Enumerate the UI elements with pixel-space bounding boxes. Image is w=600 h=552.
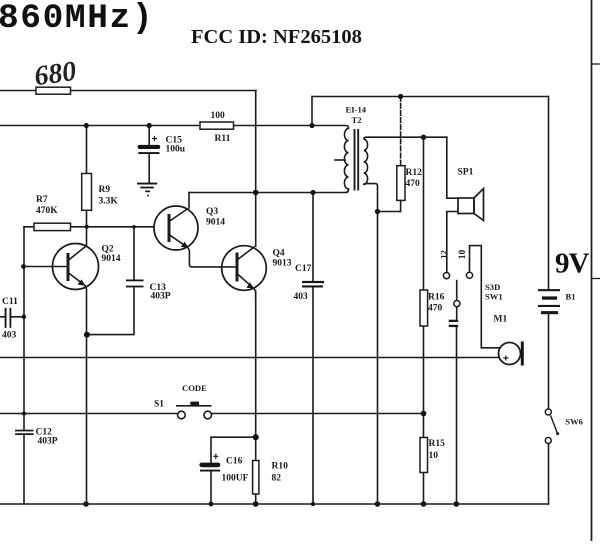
wire code line with S1 gap — [0, 413, 424, 415]
wire base line R7 to Q3 — [24, 226, 154, 228]
wire right page border — [591, 0, 593, 540]
capacitor C17 — [302, 281, 324, 288]
wire riser joining rail C to rail B — [311, 97, 313, 126]
svg-text:82: 82 — [272, 474, 282, 484]
wire long microphone wire — [0, 357, 499, 359]
wire C15 column — [148, 126, 150, 183]
wire Q4 collector riser — [255, 193, 257, 247]
capacitor C16 (electrolytic) — [199, 454, 220, 472]
svg-text:12: 12 — [438, 250, 448, 259]
capacitor C13 — [126, 280, 144, 288]
wire R16 R15 column — [423, 137, 425, 504]
svg-text:100: 100 — [211, 111, 226, 121]
transformer T2 primary coil — [344, 129, 348, 193]
junction C11 node — [22, 315, 26, 319]
capacitor C11 — [5, 308, 12, 328]
svg-text:470: 470 — [428, 303, 443, 313]
svg-text:9013: 9013 — [273, 259, 292, 269]
svg-text:R7: R7 — [36, 195, 48, 205]
svg-text:B1: B1 — [566, 292, 576, 302]
wire battery to SW6 — [548, 314, 550, 409]
svg-text:T2: T2 — [352, 115, 362, 125]
junction R12 top on supply rail — [398, 94, 403, 99]
svg-text:680: 680 — [32, 56, 78, 93]
junction ground rail R10 — [253, 501, 259, 507]
svg-text:R15: R15 — [429, 439, 446, 449]
junction secondary bottom with R12 — [375, 209, 380, 214]
junction riser on VCC rail — [309, 123, 314, 128]
battery B1 — [538, 289, 560, 314]
wire Q3 collector riser — [188, 193, 190, 209]
svg-text:FCC ID: NF265108: FCC ID: NF265108 — [191, 26, 362, 48]
svg-text:R16: R16 — [428, 293, 445, 303]
svg-text:10: 10 — [458, 250, 468, 260]
svg-text:9V: 9V — [555, 248, 590, 280]
wire left column through C12 — [23, 227, 25, 504]
resistor 680 (handwritten value) — [36, 87, 71, 94]
wire VCC rail B to transformer primary top — [0, 126, 349, 129]
svg-text:403: 403 — [2, 331, 17, 341]
wire C13 column top — [133, 227, 135, 280]
resistor R16 — [420, 290, 428, 326]
wire R12 column — [400, 97, 402, 166]
junction Q2 base node — [21, 264, 26, 269]
wire C11 leads — [0, 316, 24, 318]
wire battery column top — [548, 97, 550, 290]
wire speaker top lead — [447, 137, 458, 198]
transistor Q4 — [222, 246, 267, 300]
junction R9 top on VCC rail — [84, 123, 89, 128]
svg-text:Q2: Q2 — [102, 245, 114, 255]
junction C12 on code wire — [22, 412, 26, 416]
junction code wire at R15 top — [421, 411, 427, 417]
switch S3D SW1 slider bars — [449, 320, 458, 327]
transformer T2 core — [355, 129, 359, 191]
wire secondary bottom column to bottom rail — [377, 212, 379, 505]
wire top rail through 680 resistor — [0, 90, 256, 92]
svg-text:10: 10 — [429, 451, 439, 461]
svg-text:860MHz): 860MHz) — [0, 0, 154, 38]
svg-text:S1: S1 — [154, 400, 164, 410]
wire R12 bottom link — [378, 211, 401, 213]
junction Q4 collector node — [253, 190, 259, 196]
svg-text:470: 470 — [406, 179, 421, 189]
svg-text:SW6: SW6 — [565, 417, 583, 427]
wire speaker bottom lead to contact 12 — [447, 212, 458, 273]
resistor R10 — [253, 461, 259, 495]
svg-text:100u: 100u — [166, 145, 186, 155]
wire transformer secondary bottom drop — [367, 184, 378, 212]
junction ground rail switch pole — [454, 501, 460, 507]
wire C17 column — [312, 193, 314, 505]
junction ground rail C16 — [209, 502, 214, 507]
svg-text:Q3: Q3 — [206, 207, 218, 217]
resistor R12 — [397, 166, 405, 201]
wire border tick top — [592, 63, 600, 65]
ground symbol below C15 — [137, 183, 157, 197]
svg-text:403: 403 — [294, 292, 309, 302]
wire transformer secondary top to speaker column — [367, 136, 447, 138]
svg-text:C17: C17 — [295, 264, 312, 274]
wire border tick middle — [593, 278, 600, 280]
switch S3D SW1 contact circles — [443, 272, 472, 307]
wire Q4 emitter / R10 column — [255, 291, 257, 504]
svg-text:403P: 403P — [38, 437, 58, 447]
transistor Q2 — [53, 244, 99, 336]
wire transformer primary tap stub — [335, 159, 345, 161]
junction R9 bottom on base wire — [85, 225, 89, 229]
junction C17 top node — [310, 190, 315, 195]
junction ground rail C17 — [311, 502, 315, 506]
switch SW6 — [545, 409, 559, 444]
svg-text:470K: 470K — [36, 206, 58, 216]
svg-text:C11: C11 — [2, 297, 18, 307]
svg-text:R9: R9 — [99, 185, 111, 195]
svg-text:Q4: Q4 — [273, 248, 285, 258]
resistor R9 — [82, 174, 92, 211]
svg-text:EI-14: EI-14 — [346, 105, 367, 115]
svg-text:R12: R12 — [406, 168, 423, 178]
wire Q3 collector to transformer primary bottom — [189, 189, 349, 192]
wire Q2 emitter column — [86, 335, 88, 504]
wire vertical from top rail corner down to Q4 collector node — [255, 91, 257, 193]
wire Q2 base lead — [24, 266, 68, 268]
resistor R15 — [420, 438, 428, 473]
junction R16 top on secondary wire — [421, 135, 426, 140]
svg-text:CODE: CODE — [182, 383, 207, 393]
svg-text:C16: C16 — [226, 457, 243, 467]
wire R9 column top — [86, 126, 88, 174]
wire upper supply rail C — [312, 96, 549, 98]
junction C16 branch on R10 column — [253, 434, 259, 440]
svg-text:R11: R11 — [215, 134, 231, 144]
wire switch pole — [456, 281, 458, 505]
microphone M1 — [499, 342, 524, 366]
wire switch contact 10 link to M1 — [470, 246, 500, 348]
transformer T2 secondary coil — [364, 137, 368, 184]
svg-text:100UF: 100UF — [222, 474, 249, 484]
wire bottom ground rail — [0, 503, 549, 505]
svg-text:M1: M1 — [494, 314, 508, 324]
pushbutton S1 — [176, 402, 212, 419]
wire C13 bottom to Q2 emitter node — [87, 288, 134, 335]
resistor R11 — [200, 122, 234, 129]
capacitor C12 — [15, 430, 34, 435]
transistor Q3 — [154, 206, 236, 267]
junction ground rail secondary — [375, 501, 381, 507]
wire SW6 to bottom rail — [548, 444, 550, 504]
junction Q2 emitter node — [84, 332, 90, 338]
wire C16 branch — [211, 437, 256, 504]
wire R9 bottom to Q2 collector — [86, 210, 88, 246]
svg-text:SP1: SP1 — [458, 168, 474, 178]
capacitor C15 (electrolytic) — [138, 136, 161, 154]
svg-text:9014: 9014 — [206, 218, 225, 228]
junction C15 top on VCC rail — [147, 123, 152, 128]
speaker SP1 — [458, 189, 484, 221]
svg-text:R10: R10 — [272, 461, 289, 471]
resistor R7 — [34, 223, 71, 230]
junction C13 top on base wire — [132, 225, 136, 229]
junction ground rail x86 — [83, 501, 89, 507]
svg-text:403P: 403P — [151, 291, 171, 301]
junction ground rail R15 — [421, 501, 427, 507]
svg-text:3.3K: 3.3K — [99, 196, 119, 206]
svg-text:9014: 9014 — [102, 254, 121, 264]
svg-text:SW1: SW1 — [485, 292, 503, 302]
